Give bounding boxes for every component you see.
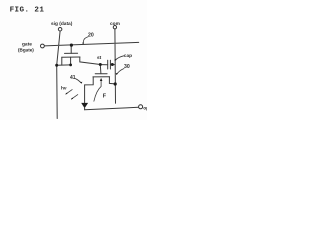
svg-text:41: 41 xyxy=(70,75,76,81)
svg-text:com: com xyxy=(110,22,120,27)
svg-text:30: 30 xyxy=(124,64,130,70)
svg-text:(Bgate): (Bgate) xyxy=(18,47,34,52)
svg-text:cap: cap xyxy=(124,54,132,59)
svg-text:20: 20 xyxy=(88,32,94,38)
svg-text:F: F xyxy=(103,93,107,99)
svg-text:op: op xyxy=(143,106,147,111)
svg-text:FIG. 21: FIG. 21 xyxy=(10,6,45,14)
svg-text:hν: hν xyxy=(61,86,67,92)
svg-text:sig (data): sig (data) xyxy=(51,21,73,27)
svg-text:st: st xyxy=(97,55,102,61)
